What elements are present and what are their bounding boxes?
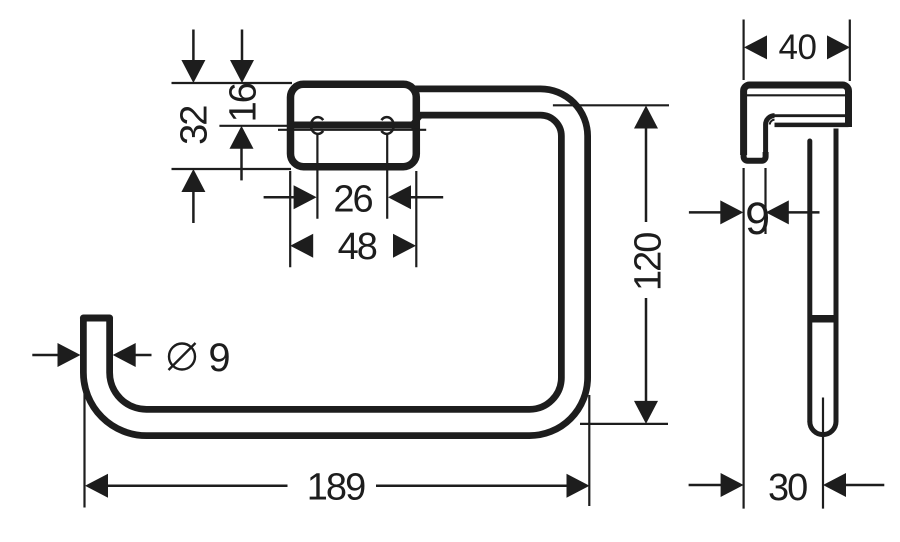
hole extension line left <box>316 134 318 219</box>
120 dim line upper <box>645 128 648 223</box>
screw hole right <box>381 117 393 134</box>
cover bottom edge <box>775 123 849 128</box>
wall ext line lower <box>742 168 744 509</box>
120 ext line bottom <box>580 423 668 425</box>
48 ext line right <box>415 171 417 267</box>
tube open end cap <box>80 315 113 322</box>
plate mid line (tube edge through plate) <box>294 122 412 129</box>
arrow 16 top <box>241 30 244 62</box>
30 right arrow <box>823 473 846 497</box>
arrow 16 bottom <box>230 126 254 149</box>
svg-text:32: 32 <box>174 106 216 145</box>
svg-text:120: 120 <box>627 233 669 291</box>
30 left arrow <box>721 473 744 497</box>
120 ext line top <box>553 104 669 106</box>
30 left tail <box>689 484 722 487</box>
hanging tube bottom cap <box>810 422 836 435</box>
189 left arrow <box>85 474 108 498</box>
svg-text:30: 30 <box>768 467 807 509</box>
plate face line with tube bend arc <box>766 116 775 158</box>
tube center line <box>822 398 824 509</box>
extension line bottom (32) <box>172 168 292 170</box>
189 dim line left <box>107 484 288 487</box>
svg-text:9: 9 <box>745 193 768 244</box>
48 left arrow <box>290 234 313 258</box>
weld joint <box>808 315 839 323</box>
hanging tube right edge <box>834 129 839 422</box>
26 left arrow <box>294 185 317 209</box>
tube bend inner arc <box>770 120 775 125</box>
svg-text:189: 189 <box>307 467 365 509</box>
40 left arrow <box>744 35 767 59</box>
plate bottom cap <box>744 150 766 161</box>
diameter left arrow <box>58 343 81 367</box>
seam line through plate <box>278 129 426 131</box>
189 right arrow <box>567 474 590 498</box>
screw hole left <box>311 117 323 134</box>
wall ext line upper <box>742 20 744 81</box>
9 right arrow <box>766 200 789 224</box>
tube bottom edge line (side) <box>774 114 846 117</box>
26 left tail <box>264 196 295 199</box>
diameter dim left tail <box>32 354 58 357</box>
svg-text:9: 9 <box>208 336 230 380</box>
48 ext line left <box>289 171 291 267</box>
189 ext line right <box>588 395 590 506</box>
189 ext line left <box>83 390 85 508</box>
towel ring tube (outer black) <box>97 102 575 423</box>
svg-text:48: 48 <box>338 226 377 268</box>
9 ext line right <box>764 168 766 234</box>
9 left tail <box>689 211 721 214</box>
40 ext line right <box>849 20 851 82</box>
120 bottom arrow <box>634 401 658 424</box>
towel ring tube (inner white) <box>97 102 575 423</box>
svg-text:16: 16 <box>223 83 265 122</box>
120 dim line lower <box>645 298 648 402</box>
hole extension line right <box>386 134 388 219</box>
arrow 32 top <box>192 30 195 62</box>
120 top arrow <box>634 106 658 129</box>
hanging tube left edge <box>807 141 812 422</box>
extension line top (32/16 datum) <box>172 82 293 84</box>
9 left arrow <box>720 200 743 224</box>
26 right tail <box>410 196 443 199</box>
extension line mid (16) <box>219 125 291 127</box>
diameter right tail <box>135 354 152 357</box>
svg-text:26: 26 <box>333 179 372 221</box>
arrow 32 bottom <box>181 169 205 192</box>
cover inner top line <box>745 94 848 96</box>
diameter symbol <box>169 344 195 370</box>
cover outline <box>744 85 849 155</box>
jog at plate edge <box>410 117 420 128</box>
9 right tail <box>788 211 820 214</box>
40 right arrow <box>827 35 850 59</box>
189 dim line right <box>376 484 568 487</box>
diameter right arrow <box>113 343 136 367</box>
30 right tail <box>845 484 884 487</box>
26 right arrow <box>388 185 411 209</box>
48 right arrow <box>393 234 416 258</box>
wall plate <box>291 84 417 166</box>
svg-text:40: 40 <box>779 28 817 67</box>
